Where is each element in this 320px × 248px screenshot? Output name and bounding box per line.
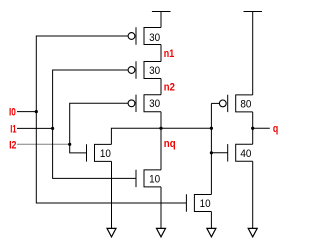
svg-text:10: 10	[100, 148, 111, 160]
svg-text:10: 10	[200, 199, 211, 211]
svg-text:q: q	[273, 123, 278, 135]
svg-text:I0: I0	[9, 106, 16, 118]
svg-text:80: 80	[240, 99, 251, 111]
svg-text:nq: nq	[164, 139, 176, 151]
svg-text:I2: I2	[9, 140, 17, 152]
svg-text:40: 40	[240, 148, 251, 160]
svg-text:n2: n2	[164, 82, 175, 94]
svg-text:I1: I1	[10, 123, 16, 136]
svg-text:30: 30	[149, 66, 160, 78]
svg-text:10: 10	[149, 174, 160, 186]
svg-text:n1: n1	[164, 48, 175, 60]
svg-text:30: 30	[149, 99, 160, 111]
svg-text:30: 30	[149, 32, 160, 44]
